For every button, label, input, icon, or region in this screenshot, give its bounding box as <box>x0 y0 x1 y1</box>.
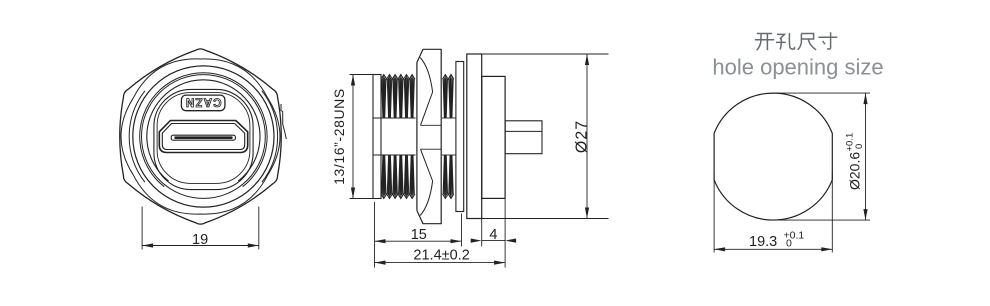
dim 4 line <box>482 240 505 242</box>
svg-text:19.3: 19.3 <box>749 234 777 250</box>
svg-text:Ø20.6: Ø20.6 <box>847 152 863 190</box>
panel washer <box>456 62 464 212</box>
dia 20.6 label with tolerance <box>845 133 866 190</box>
thread band 1 top <box>381 75 415 80</box>
thread relief lines band1 <box>373 117 416 119</box>
dim 19 extension line right <box>258 207 260 250</box>
dim 15 extension lines <box>374 202 376 268</box>
HDMI slot <box>171 135 235 140</box>
coupling nut (side view) <box>417 49 441 223</box>
svg-text:CAZN: CAZN <box>185 96 222 108</box>
thread band 2 bottom <box>443 155 454 199</box>
HDMI port outer outline <box>159 121 247 153</box>
dim 19.3 extension lines <box>713 172 715 253</box>
dia 27 extension lines <box>482 53 609 55</box>
hole cutout shape (circle with flats) <box>714 93 832 220</box>
dia 20.6 extension lines <box>776 92 870 94</box>
svg-text:21.4±0.2: 21.4±0.2 <box>413 248 469 264</box>
svg-text:0: 0 <box>786 238 792 250</box>
flange <box>467 54 482 219</box>
svg-text:4: 4 <box>489 227 497 243</box>
bezel circle inner (open at bottom) <box>147 80 260 181</box>
bezel ring band outer (open at bottom) <box>140 73 267 187</box>
svg-text:Ø27: Ø27 <box>574 120 591 153</box>
bezel ring band inner <box>142 75 266 199</box>
svg-text:19: 19 <box>192 232 208 248</box>
front rim of coupling (side view) <box>373 75 381 199</box>
svg-text:0: 0 <box>854 144 865 149</box>
HDMI port inner outline <box>162 124 244 150</box>
svg-text:hole opening size: hole opening size <box>712 54 883 79</box>
thread spec dimension line 13/16-28UNS <box>352 75 354 199</box>
dim 19 line <box>142 245 259 247</box>
title Chinese characters kai kong chi cun <box>755 34 774 51</box>
svg-text:15: 15 <box>411 227 427 243</box>
nut chamfer wedge bottom <box>420 149 432 215</box>
dim 15 line <box>375 240 462 242</box>
bezel circle outer <box>133 66 274 207</box>
thread relief lines band2 <box>442 117 456 119</box>
hex nut outline (front view) <box>120 49 282 224</box>
right side tab <box>281 104 286 139</box>
svg-text:13/16”-28UNS: 13/16”-28UNS <box>331 88 347 185</box>
nut chamfer wedge top <box>420 58 432 126</box>
logo box <box>181 95 225 111</box>
dim 21.4 line <box>375 262 506 264</box>
rear body <box>482 76 505 198</box>
thread band 1 bottom <box>381 155 415 199</box>
dim 19.3 line <box>714 248 832 250</box>
hex chamfer inner arcs <box>121 59 280 214</box>
face plate rounded square outer <box>154 89 253 189</box>
dia 20.6 dimension line <box>865 93 867 220</box>
rear pin/tab <box>505 121 542 154</box>
dia 27 dimension line <box>586 54 588 219</box>
dim 19 extension line left <box>141 207 143 250</box>
dim 4 extension lines <box>481 219 483 247</box>
face plate rounded square inner <box>157 93 250 184</box>
outer ring side arcs <box>262 91 278 182</box>
thread band 2 top <box>443 75 454 80</box>
